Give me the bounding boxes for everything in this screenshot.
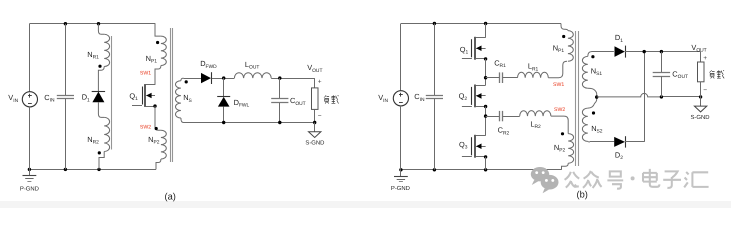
svg-text:S-GND: S-GND bbox=[305, 139, 324, 146]
svg-text:−: − bbox=[318, 113, 322, 120]
svg-text:SW1: SW1 bbox=[553, 82, 564, 88]
svg-text:(a): (a) bbox=[165, 191, 176, 201]
svg-text:P-GND: P-GND bbox=[391, 185, 410, 192]
svg-text:SW2: SW2 bbox=[554, 107, 565, 113]
svg-text:+: + bbox=[318, 79, 322, 86]
svg-text:−: − bbox=[703, 87, 707, 94]
svg-text:(b): (b) bbox=[577, 190, 588, 200]
svg-text:S-GND: S-GND bbox=[691, 114, 710, 121]
svg-text:P-GND: P-GND bbox=[20, 185, 39, 192]
svg-text:SW1: SW1 bbox=[140, 71, 151, 77]
svg-text:+: + bbox=[703, 55, 707, 62]
svg-text:SW2: SW2 bbox=[140, 125, 151, 131]
